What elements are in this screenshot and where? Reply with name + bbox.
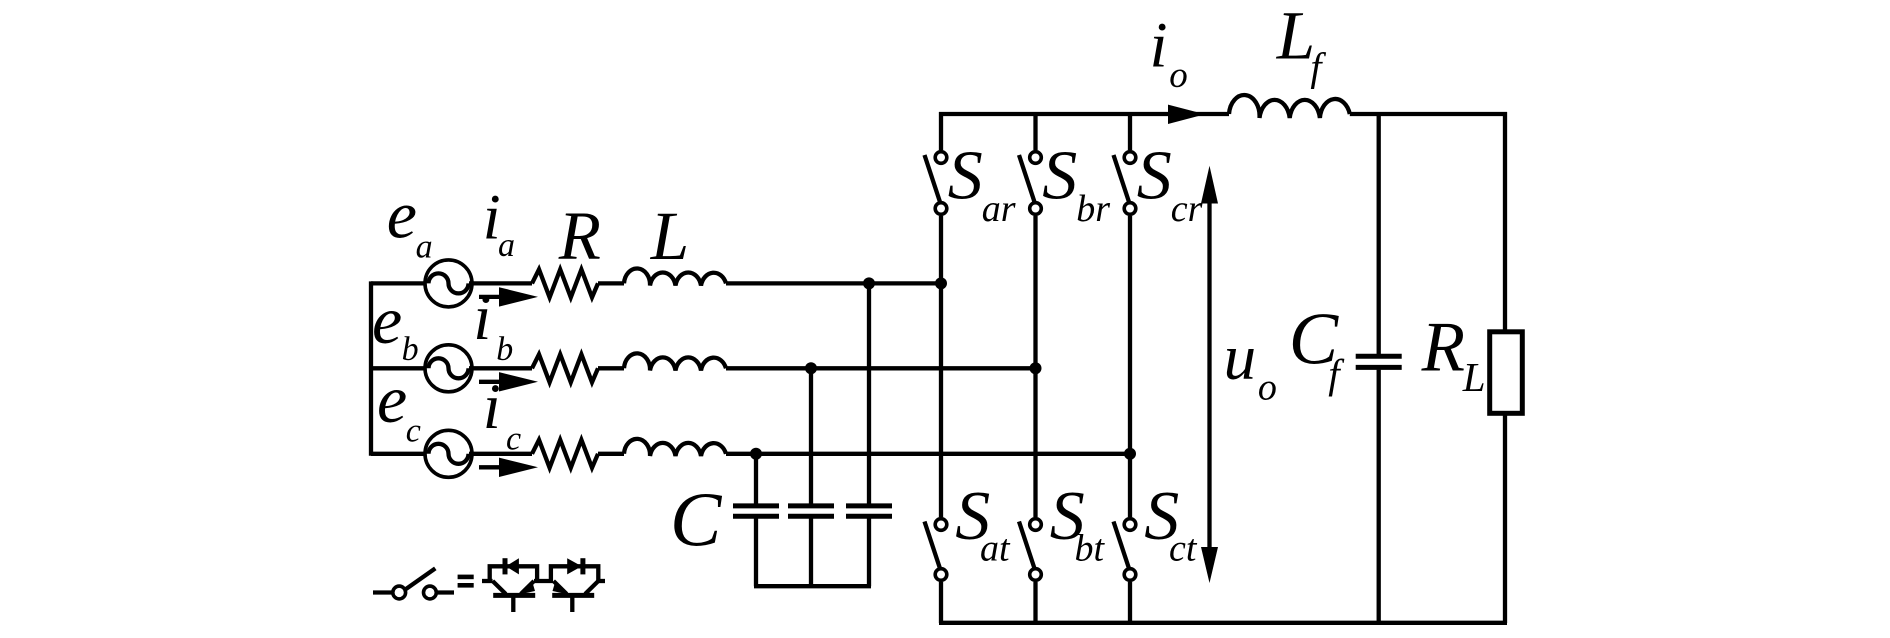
converter column c top wire — [1128, 112, 1132, 150]
legend equals sign — [458, 575, 474, 580]
source ea circle — [425, 260, 472, 307]
legend switch blade — [406, 568, 435, 589]
switch Sat blade — [925, 522, 941, 569]
svg-text:at: at — [980, 527, 1011, 569]
svg-text:S: S — [948, 137, 983, 214]
wire top bus right — [1350, 112, 1507, 116]
legend switch right contact — [424, 586, 437, 599]
legend IGBT2 right terminal — [598, 579, 605, 583]
arrow ib — [479, 380, 506, 384]
wire top bus — [939, 112, 1229, 116]
converter column b top wire — [1033, 112, 1037, 150]
source ea sine — [429, 273, 469, 293]
capacitor C phase b — [788, 506, 834, 516]
svg-text:ct: ct — [1169, 527, 1198, 569]
svg-text:e: e — [387, 177, 417, 253]
wire phase b source to resistor — [469, 366, 532, 370]
legend IGBT1 diode bar — [503, 558, 508, 574]
wire capacitor branch c — [754, 454, 758, 504]
wire phase a resistor to inductor — [598, 281, 624, 285]
converter column b mid wire — [1033, 216, 1037, 517]
wire phase c from rail to source — [371, 452, 426, 456]
arrow uo head up — [1201, 166, 1218, 204]
svg-text:c: c — [506, 420, 521, 457]
wire Cf branch lower — [1377, 370, 1381, 623]
switch Sct blade — [1114, 522, 1130, 569]
switch Sbt blade — [1019, 522, 1035, 569]
svg-text:C: C — [670, 477, 723, 563]
wire capacitor a bottom — [867, 518, 871, 586]
inductor L phase c — [624, 439, 726, 456]
legend IGBT2 emitter arrow — [553, 583, 569, 595]
svg-text:a: a — [498, 227, 515, 264]
wire phase c inductor to converter — [726, 452, 1130, 456]
converter column c mid wire — [1128, 216, 1132, 517]
wire phase b from rail to source — [371, 366, 426, 370]
source eb sine — [429, 358, 469, 378]
wire phase c resistor to inductor — [598, 452, 624, 456]
node phase c column r — [1124, 448, 1136, 460]
legend switch left contact — [393, 586, 406, 599]
capacitor Cf — [1356, 356, 1402, 367]
svg-text:br: br — [1076, 188, 1110, 230]
converter column a top wire — [939, 112, 943, 150]
converter column c bottom wire — [1128, 582, 1132, 623]
switch Sct top contact — [1124, 519, 1136, 531]
svg-text:R: R — [558, 198, 601, 274]
converter column b bottom wire — [1033, 582, 1037, 623]
svg-text:e: e — [372, 282, 402, 358]
legend IGBT2 diode triangle — [567, 558, 582, 574]
switch Sbr blade — [1019, 155, 1035, 202]
wire Cf branch upper — [1377, 114, 1381, 354]
legend IGBT2 gate stub — [570, 597, 574, 612]
switch Scr bottom contact — [1124, 203, 1136, 215]
svg-text:R: R — [1421, 308, 1465, 386]
converter column a bottom wire — [939, 582, 943, 623]
capacitor C phase a — [846, 506, 892, 516]
svg-text:o: o — [1169, 55, 1188, 96]
wire capacitor c bottom — [754, 518, 758, 586]
resistor R phase c — [532, 440, 598, 468]
legend IGBT2 diode loop — [551, 566, 598, 581]
svg-text:L: L — [1276, 0, 1315, 74]
source eb circle — [425, 345, 472, 392]
legend switch left wire — [373, 590, 393, 594]
svg-text:L: L — [1462, 354, 1486, 400]
switch Sbt top contact — [1030, 519, 1042, 531]
source ec circle — [425, 430, 472, 477]
wire phase a inductor to converter — [726, 281, 941, 285]
wire right side upper — [1503, 112, 1507, 333]
legend IGBT2 collector slant — [585, 581, 598, 594]
legend IGBT2 gate bar — [552, 593, 594, 598]
wire phase c source to resistor — [469, 452, 532, 456]
wire capacitor b bottom — [809, 518, 813, 586]
wire capacitor bank bus — [754, 584, 871, 588]
wire capacitor branch b — [809, 368, 813, 504]
legend IGBT1 diode loop — [490, 566, 537, 581]
wire right side lower — [1503, 413, 1507, 623]
node phase c capacitor tap — [750, 448, 762, 460]
wire phase b resistor to inductor — [598, 366, 624, 370]
svg-text:b: b — [496, 331, 513, 368]
legend IGBT2 emitter slant — [554, 581, 567, 594]
legend IGBT1 collector slant — [493, 581, 506, 594]
switch Sbr top contact — [1030, 152, 1042, 164]
legend switch right wire — [437, 590, 455, 594]
resistor R phase b — [532, 354, 598, 382]
svg-text:e: e — [377, 361, 407, 437]
svg-text:S: S — [1042, 137, 1077, 214]
inductor L phase a — [624, 268, 726, 285]
wire phase a source to resistor — [469, 281, 532, 285]
switch Sar top contact — [935, 152, 947, 164]
legend IGBT1 emitter slant — [521, 581, 534, 594]
arrow uo shaft — [1207, 200, 1211, 550]
legend IGBT1 gate stub — [511, 597, 515, 612]
inductor L phase b — [624, 353, 726, 370]
legend IGBT1 emitter arrow — [519, 583, 535, 595]
node phase b capacitor tap — [805, 362, 817, 374]
svg-text:i: i — [1150, 9, 1168, 81]
switch Sat bottom contact — [935, 569, 947, 581]
svg-text:i: i — [483, 371, 501, 443]
converter column a mid wire — [939, 216, 943, 517]
wire phase b inductor to converter — [726, 366, 1036, 370]
switch Scr blade — [1114, 155, 1130, 202]
wire phase a from rail to source — [371, 281, 426, 285]
legend IGBT1 diode triangle — [506, 558, 519, 574]
legend IGBT2 diode bar — [580, 558, 585, 574]
switch Sar bottom contact — [935, 203, 947, 215]
wire capacitor branch a — [867, 283, 871, 504]
svg-text:a: a — [416, 229, 433, 266]
switch Scr top contact — [1124, 152, 1136, 164]
legend IGBT1 gate bar — [493, 593, 535, 598]
switch Sbr bottom contact — [1030, 203, 1042, 215]
svg-text:L: L — [650, 198, 689, 274]
svg-text:u: u — [1224, 322, 1257, 394]
switch Sbt bottom contact — [1030, 569, 1042, 581]
svg-text:o: o — [1258, 367, 1277, 409]
node phase a column r — [935, 277, 947, 289]
svg-text:bt: bt — [1075, 527, 1106, 569]
svg-text:ar: ar — [982, 188, 1016, 230]
svg-text:cr: cr — [1171, 188, 1203, 230]
source ec sine — [429, 444, 469, 464]
svg-text:i: i — [473, 282, 491, 354]
switch Sar blade — [925, 155, 941, 202]
wire left rail — [369, 281, 373, 455]
legend IGBT1 left terminal — [482, 579, 493, 583]
inductor Lf — [1229, 95, 1350, 118]
switch Sct bottom contact — [1124, 569, 1136, 581]
legend joint wire — [534, 579, 553, 583]
svg-text:c: c — [406, 412, 421, 449]
resistor R phase a — [532, 269, 598, 297]
capacitor C phase c — [733, 506, 779, 516]
arrow io head — [1168, 105, 1205, 124]
svg-text:S: S — [1137, 137, 1172, 214]
resistor RL body — [1490, 332, 1523, 414]
switch Sat top contact — [935, 519, 947, 531]
arrow ia — [479, 295, 506, 299]
node phase a capacitor tap — [863, 277, 875, 289]
node phase b column r — [1030, 362, 1042, 374]
arrow ic — [479, 465, 506, 469]
wire bottom bus — [939, 621, 1507, 625]
arrow uo head down — [1201, 547, 1218, 583]
